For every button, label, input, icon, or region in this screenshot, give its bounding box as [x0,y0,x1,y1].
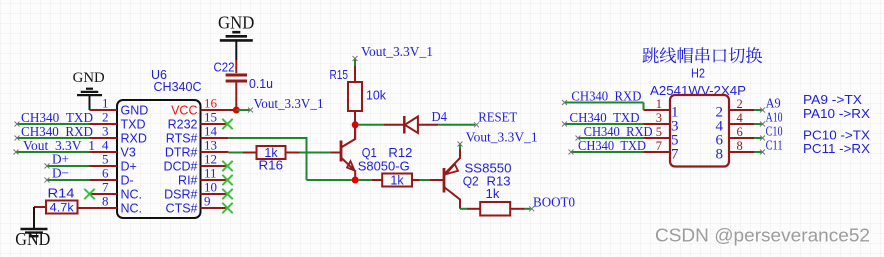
svg-text:RESET: RESET [478,111,517,126]
svg-text:D-: D- [121,174,134,188]
H2 pin 6 [716,125,755,148]
net label D+ [52,153,69,168]
svg-text:7: 7 [102,180,109,195]
capacitor C22 0.1u [214,60,274,110]
svg-text:11: 11 [204,166,217,181]
svg-text:NC.: NC. [121,188,143,202]
ground GND (bottom left) [15,229,50,249]
U6 pin 9 CTS# [166,194,229,216]
svg-text:4: 4 [102,138,109,153]
svg-text:Q2: Q2 [463,173,479,188]
net label D- [52,167,69,182]
svg-text:DTR#: DTR# [165,146,198,160]
svg-text:6: 6 [102,166,109,181]
U6 pin 3 RXD [90,124,147,146]
svg-text:3: 3 [656,111,662,125]
H2 pin 2 [716,97,755,120]
wire D+ [45,164,90,169]
wire Q2 collector to R13 [460,208,468,210]
wire R14 to ground [33,207,35,229]
svg-text:VCC: VCC [171,104,197,118]
svg-text:GND: GND [73,70,105,86]
wire D- [45,178,90,183]
title text 跳线帽串口切换 [642,47,762,63]
wire RTS# pin14 to Q1 emitter [228,137,351,180]
svg-text:4.7k: 4.7k [50,202,74,214]
svg-text:Vout_3.3V_1: Vout_3.3V_1 [254,97,324,112]
U6 pin 13 DTR# [165,138,229,160]
junction U6 VCC / C22 [233,107,240,114]
U6 pin 11 RI# [178,166,228,188]
svg-text:8: 8 [102,194,109,209]
svg-text:R16: R16 [259,158,284,173]
svg-text:10k: 10k [366,89,387,103]
net label RESET [478,111,517,126]
net label CH340_TXD (H2 pin 3) [570,111,640,126]
wire CH340_TXD to H2 pin 7 [569,150,644,155]
svg-text:2: 2 [102,110,109,125]
svg-text:10: 10 [204,180,217,195]
ground GND (top left) [73,70,105,110]
watermark CSDN @perseverance52 [655,225,872,248]
svg-text:C11: C11 [766,139,783,154]
net label A10 [766,111,783,126]
wire Q2 emitter to Vout stub [458,142,463,150]
svg-text:7: 7 [671,146,679,162]
no-connect cross U6 pin 12 [222,161,232,171]
H2 pin 5 [644,125,679,148]
svg-text:5: 5 [102,152,109,167]
svg-text:GND: GND [15,229,50,249]
U6 pin 10 DSR# [164,180,228,202]
svg-text:1: 1 [656,97,662,111]
wire CH340_RXD to H2 pin 1 [562,100,644,110]
svg-text:C22: C22 [214,61,235,75]
wire Vout_3.3V_1 stub to R15 [353,56,358,66]
text PC11 ->RX [803,141,870,156]
U6 pin 15 R232 [168,110,229,132]
net label A9 [766,97,781,112]
H2 pin 4 [716,111,755,134]
U6 pin 16 VCC [171,96,236,118]
junction Q1 emitter / R12 [352,177,359,184]
wire H2 pin 2 to A9 [754,108,765,113]
net label CH340_RXD (H2 pin 5) [584,125,653,140]
svg-text:12: 12 [204,152,217,167]
net label Vout_3.3V_1 (R15 top) [361,45,433,60]
svg-text:RI#: RI# [178,174,198,188]
wire D4 to RESET [438,122,479,127]
net label C10 [766,125,783,140]
no-connect cross U6 pin 10 [222,189,232,199]
wire H2 pin 6 to C10 [754,136,765,141]
svg-text:A10: A10 [766,111,783,126]
net label Vout_3.3V_1 (U6 pin 4) [23,139,95,154]
net label CH340_TXD (U6 pin 2) [21,111,93,126]
svg-text:RXD: RXD [121,132,147,146]
wire R16 to Q1 base [300,152,331,154]
wire CH340_TXD to H2 pin 3 [562,122,644,127]
svg-text:DCD#: DCD# [163,160,197,174]
svg-text:6: 6 [737,125,743,139]
svg-text:7: 7 [656,139,662,153]
no-connect cross U6 pin 7 [84,189,94,199]
U6 pin 4 V3 [90,138,136,160]
svg-text:15: 15 [204,110,217,125]
no-connect cross U6 pin 15 [222,119,232,129]
H2 pin 8 [716,139,755,162]
svg-text:16: 16 [204,96,218,111]
svg-text:H2: H2 [691,66,705,81]
svg-text:1k: 1k [390,173,404,187]
svg-text:PA10 ->RX: PA10 ->RX [803,106,870,121]
no-connect cross U6 pin 9 [222,203,232,213]
ground GND (top center) [218,12,254,60]
text PA9 ->TX [803,92,862,107]
U6 pin 8 NC. [90,194,143,216]
svg-text:3: 3 [102,124,109,139]
svg-text:D4: D4 [432,110,448,125]
H2 pin 7 [644,139,680,162]
svg-text:Vout_3.3V_1: Vout_3.3V_1 [361,45,433,60]
svg-text:TXD: TXD [121,118,146,132]
svg-text:A9: A9 [766,97,781,112]
svg-text:R14: R14 [48,187,75,201]
svg-text:5: 5 [656,125,662,139]
net label Vout_3.3V_1 (VCC) [254,97,324,112]
svg-text:0.1u: 0.1u [249,77,273,91]
svg-text:9: 9 [204,194,211,209]
resistor R16 1k [243,146,300,173]
svg-text:8: 8 [737,139,743,153]
svg-text:PC11 ->RX: PC11 ->RX [803,141,870,156]
svg-text:V3: V3 [121,146,136,160]
svg-text:GND: GND [218,12,254,32]
U6 pin 6 D- [90,166,134,188]
svg-text:Vout_3.3V_1: Vout_3.3V_1 [466,131,538,146]
wire Vout_3.3V_1 to pin 4 [14,150,90,155]
U6 pin 5 D+ [90,152,137,174]
svg-text:R12: R12 [388,145,412,160]
svg-text:4: 4 [737,111,744,125]
wire junction to D4 [359,124,384,126]
U6 pin 14 RTS# [166,124,229,146]
svg-text:14: 14 [204,124,218,139]
U6 pin 12 DCD# [163,152,228,174]
svg-text:R15: R15 [330,68,349,82]
svg-text:2: 2 [737,97,743,111]
no-connect cross U6 pin 11 [222,175,232,185]
svg-text:BOOT0: BOOT0 [533,196,575,211]
transistor Q1 S8050-G [331,125,410,180]
wire CH340_TXD [15,122,90,127]
wire VCC junction to net label [236,108,253,113]
wire R13 to BOOT0 [525,206,534,211]
resistor R15 10k [330,66,387,139]
svg-text:CTS#: CTS# [166,202,198,216]
transistor Q2 SS8550 [430,149,512,209]
wire CH340_RXD [15,136,90,141]
U6 pin 7 NC. [90,180,143,202]
junction R15 / Q1 collector / D4 [352,121,359,128]
wire H2 pin 4 to A10 [754,122,765,127]
wire CH340_RXD to H2 pin 5 [576,136,644,141]
svg-text:RTS#: RTS# [166,132,198,146]
net label Vout_3.3V_1 (Q2 emitter) [466,131,538,146]
svg-text:C10: C10 [766,125,783,140]
net label CH340_RXD (H2 pin 1) [571,90,641,105]
resistor R13 1k [468,173,525,215]
svg-text:CSDN @perseverance52: CSDN @perseverance52 [655,225,870,246]
svg-text:DSR#: DSR# [164,188,197,202]
svg-text:R232: R232 [168,118,198,132]
diode D4 [384,110,447,134]
net label BOOT0 [533,196,575,211]
svg-text:13: 13 [204,138,217,153]
wire H2 pin 8 to C11 [754,150,765,155]
svg-text:GND: GND [121,104,149,118]
svg-text:D+: D+ [121,160,137,174]
text PA10 ->RX [803,106,870,121]
net label CH340_TXD (H2 pin 7) [578,139,646,154]
U6 pin 2 TXD [90,110,146,132]
svg-text:1: 1 [102,96,109,111]
wire Q1 emitter to R12 [359,179,372,181]
svg-text:PA9 ->TX: PA9 ->TX [803,92,862,107]
H2 pin 1 [644,97,679,120]
wire DTR# pin13 to R16 [228,152,244,154]
svg-text:S8050-G: S8050-G [358,159,410,174]
wire R12 to Q2 base [420,179,431,181]
svg-text:NC.: NC. [121,202,143,216]
net label CH340_RXD (U6 pin 3) [21,125,93,140]
U6 pin 1 GND [90,96,149,118]
H2 pin 3 [644,111,679,134]
text PC10 ->TX [803,128,870,143]
resistor R14 4.7k [34,187,90,215]
svg-text:1k: 1k [486,186,501,201]
svg-text:CH340C: CH340C [154,79,202,94]
resistor R12 1k [372,145,420,187]
ic U6 CH340C body [117,68,202,218]
connector H2 A2541WV-2X4P body [650,66,746,167]
svg-text:8: 8 [716,146,724,162]
net label C11 [766,139,783,154]
